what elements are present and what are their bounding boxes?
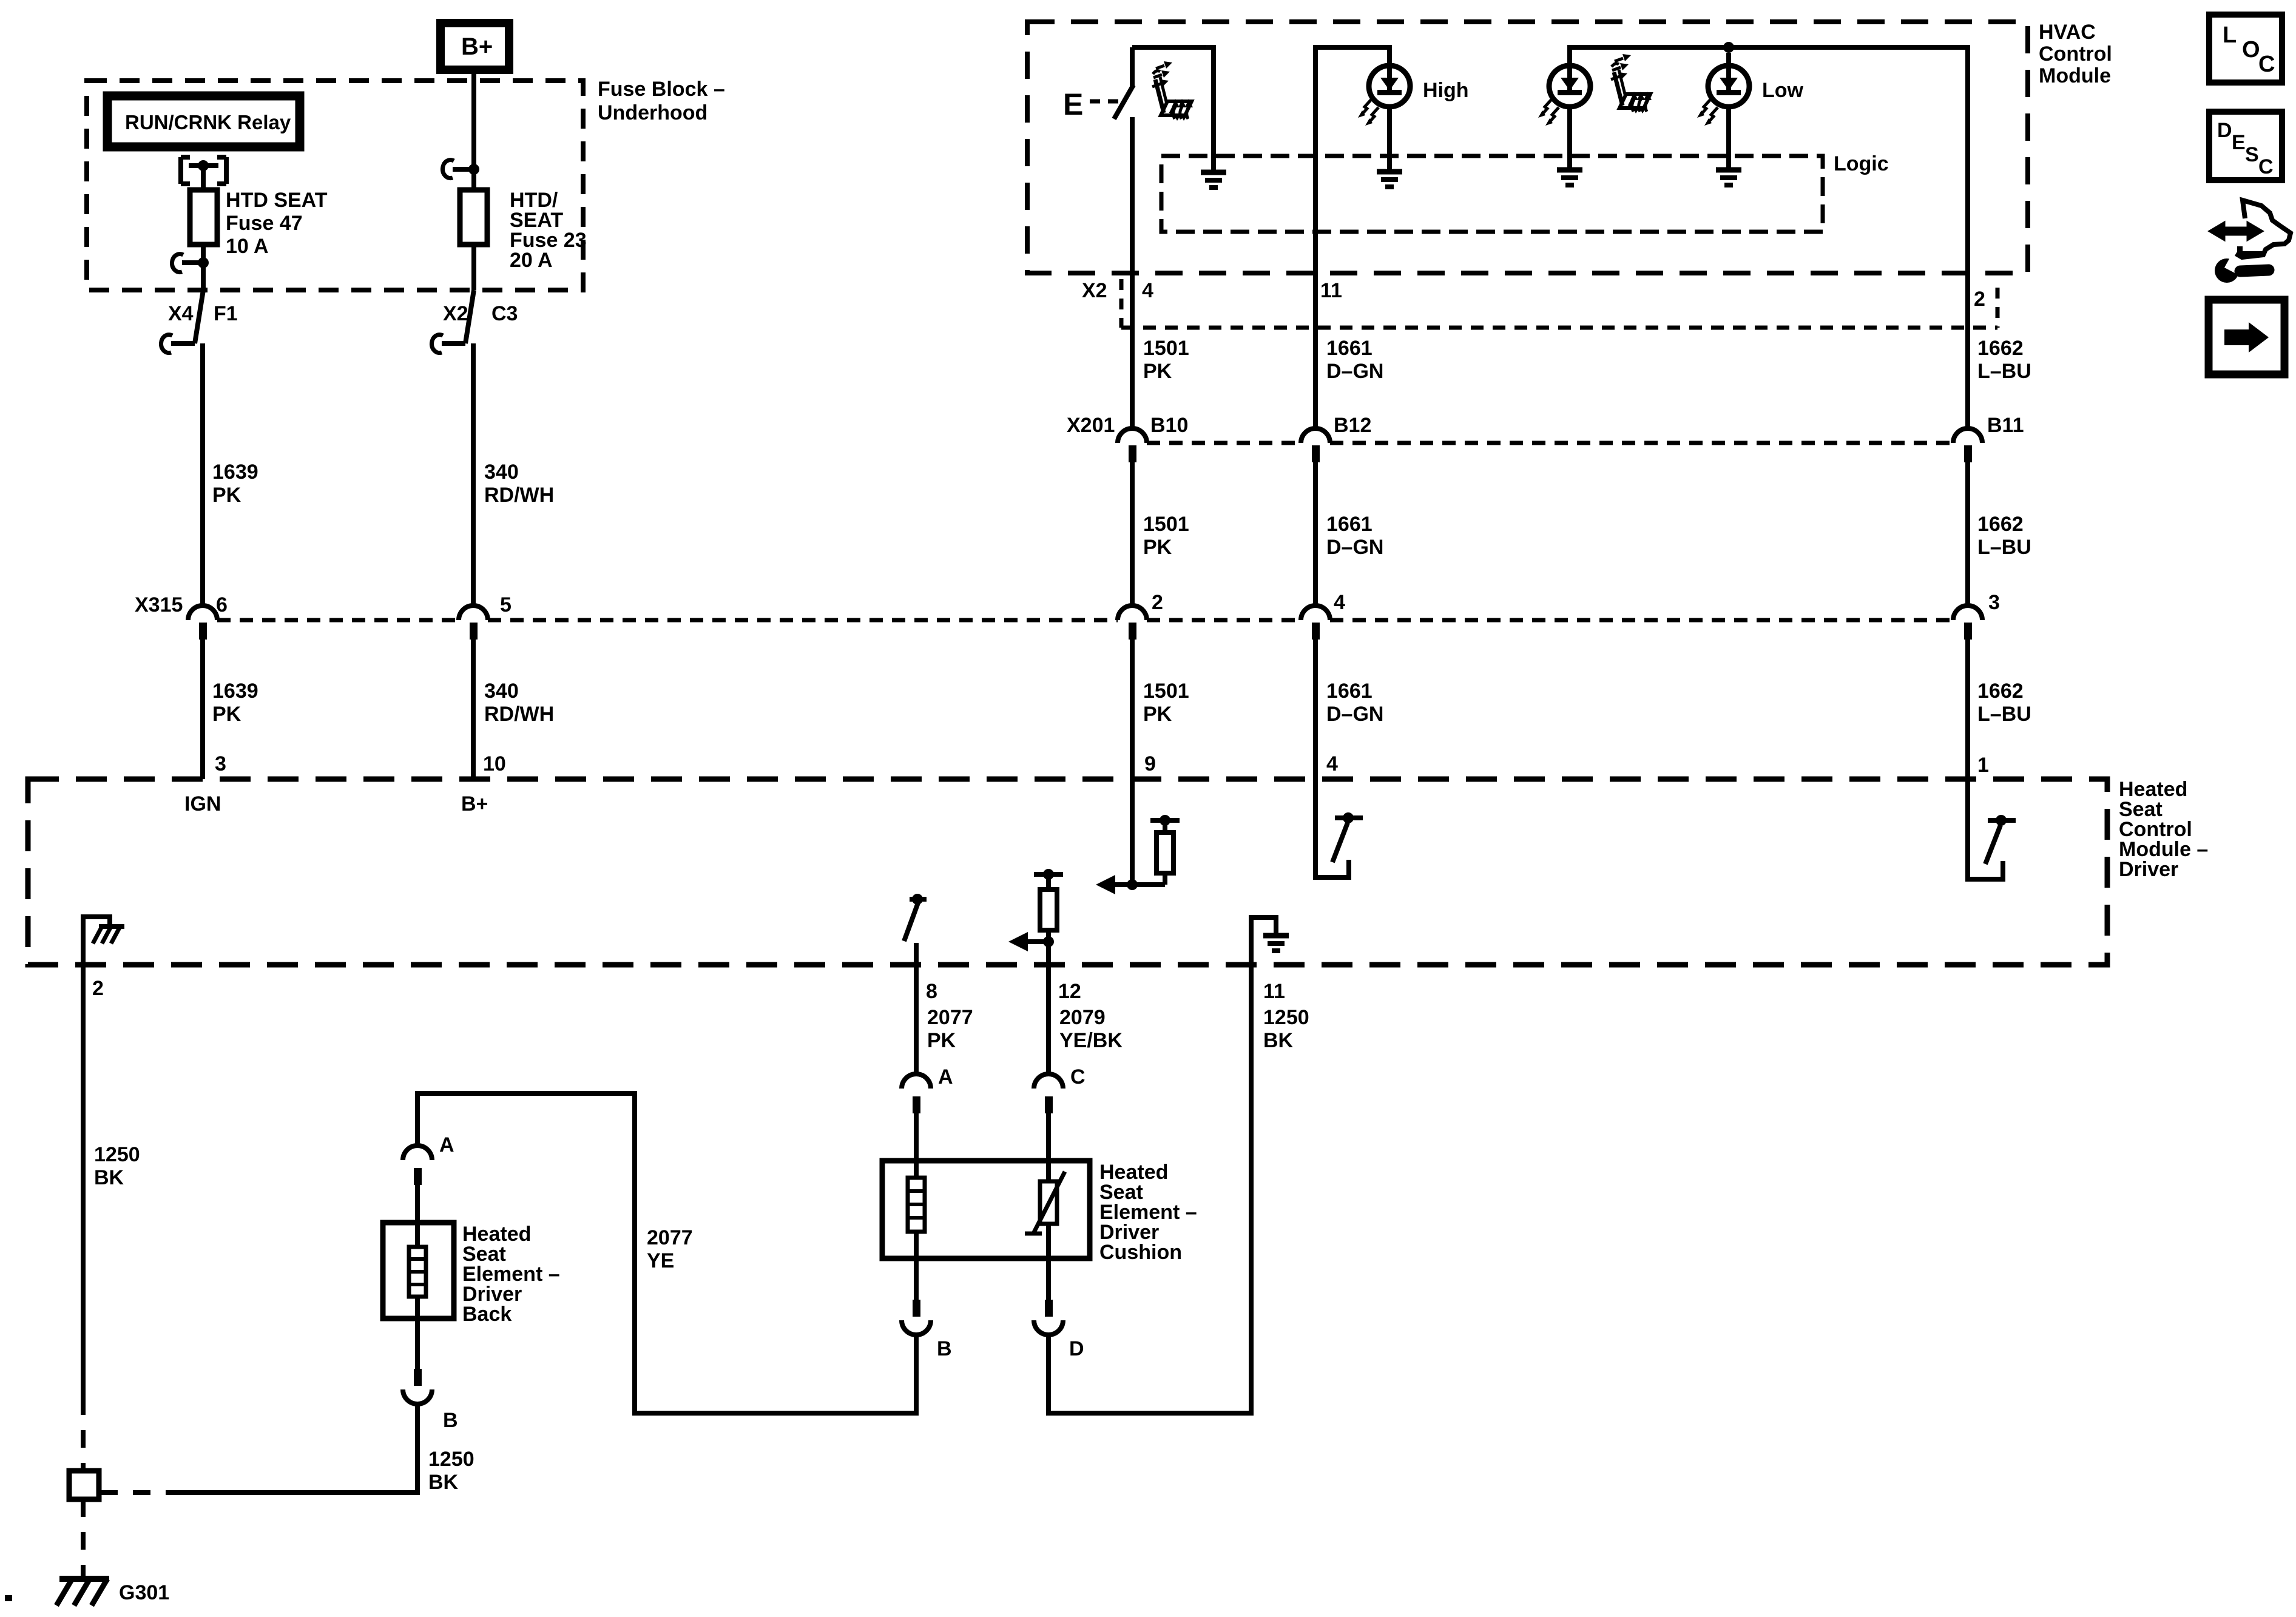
- svg-text:Low: Low: [1762, 79, 1804, 102]
- svg-text:Module: Module: [2039, 64, 2111, 87]
- RUN/CRNK relay box: [107, 96, 300, 147]
- svg-text:4: 4: [1326, 752, 1338, 775]
- wire A into back element: [415, 1185, 420, 1247]
- label 1639 PK lower: [212, 680, 258, 726]
- wire 1661 D-GN row A: [1313, 328, 1318, 430]
- svg-text:B10: B10: [1150, 414, 1188, 437]
- module switch pin 4: [1315, 779, 1363, 877]
- svg-text:C: C: [1070, 1065, 1086, 1089]
- module resistor pin 12: [1034, 869, 1063, 965]
- wire 2079 YE/BK pin 12: [1046, 965, 1051, 1074]
- connector A back: [403, 1133, 454, 1185]
- svg-text:D–GN: D–GN: [1326, 360, 1383, 383]
- svg-text:Driver: Driver: [2119, 858, 2178, 881]
- svg-text:PK: PK: [212, 484, 241, 507]
- svg-text:X4: X4: [168, 302, 194, 325]
- svg-text:1501: 1501: [1143, 513, 1189, 536]
- HVAC control module label: [2039, 21, 2112, 87]
- wire 1250 BK left dashed to splice: [81, 1397, 86, 1471]
- wire 1501 PK row A: [1130, 328, 1135, 430]
- module resistor pin 9: [1150, 815, 1180, 885]
- svg-text:1662: 1662: [1977, 513, 2024, 536]
- svg-text:L–BU: L–BU: [1977, 360, 2031, 383]
- wire top rail Low branch: [1570, 47, 1968, 273]
- svg-text:1250: 1250: [1263, 1006, 1309, 1029]
- ground G301: [56, 1579, 109, 1605]
- label 1661 D-GN row A: [1326, 337, 1383, 383]
- wire 1662 L-BU row C: [1965, 640, 1970, 779]
- contact below fuse 47: [172, 254, 209, 290]
- svg-text:9: 9: [1144, 752, 1156, 775]
- wire 1639 PK upper: [200, 343, 205, 607]
- svg-text:C: C: [2258, 155, 2274, 178]
- svg-text:PK: PK: [212, 703, 241, 726]
- heated seat icon 1: [1152, 61, 1193, 121]
- svg-text:B12: B12: [1334, 414, 1371, 437]
- label 340 RD/WH lower: [484, 680, 554, 726]
- svg-text:D–GN: D–GN: [1326, 536, 1383, 559]
- module arrow pin 12: [1008, 932, 1054, 951]
- cushion heater element: [908, 1178, 925, 1300]
- svg-text:1: 1: [1977, 754, 1989, 777]
- svg-text:Cushion: Cushion: [1099, 1241, 1182, 1264]
- svg-text:1661: 1661: [1326, 337, 1373, 360]
- svg-text:2077: 2077: [647, 1226, 693, 1249]
- wire splice to G301 dashed: [81, 1499, 86, 1578]
- switch E actuator: [1063, 87, 1123, 121]
- svg-text:2: 2: [1974, 288, 1985, 311]
- splice square: [69, 1471, 99, 1499]
- label 1501 PK row C: [1143, 680, 1189, 726]
- svg-text:D–GN: D–GN: [1326, 703, 1383, 726]
- svg-text:S: S: [2245, 143, 2259, 166]
- svg-text:11: 11: [1263, 980, 1285, 1003]
- wire 1662 L-BU row A: [1965, 273, 1970, 430]
- svg-text:1661: 1661: [1326, 513, 1373, 536]
- X315 terminal pin 4: [1301, 591, 1345, 640]
- svg-text:Logic: Logic: [1834, 152, 1889, 175]
- fuse 47 label: [226, 189, 328, 258]
- svg-text:E: E: [1063, 87, 1083, 121]
- relay contact: [181, 157, 226, 190]
- switch blade HVAC: [1114, 47, 1133, 119]
- svg-text:1250: 1250: [94, 1143, 140, 1166]
- connector B cushion: [902, 1300, 952, 1360]
- label 340 RD/WH upper: [484, 461, 554, 507]
- wire 1662 L-BU row B: [1965, 462, 1970, 607]
- svg-text:11: 11: [1320, 279, 1342, 302]
- page mark dot: [5, 1595, 12, 1601]
- svg-text:4: 4: [1334, 591, 1345, 614]
- wire 2077 PK pin 8: [914, 965, 919, 1074]
- label 2077 YE: [647, 1226, 693, 1272]
- heated seat element driver cushion box: [882, 1161, 1090, 1258]
- svg-text:O: O: [2242, 37, 2260, 62]
- B+ power terminal box: [441, 23, 509, 70]
- svg-text:1250: 1250: [428, 1448, 474, 1471]
- svg-text:X201: X201: [1067, 414, 1115, 437]
- svg-text:IGN: IGN: [184, 792, 221, 815]
- label 1250 BK pin 11: [1263, 1006, 1309, 1052]
- svg-text:L–BU: L–BU: [1977, 703, 2031, 726]
- svg-text:1501: 1501: [1143, 680, 1189, 703]
- svg-text:X2: X2: [443, 302, 468, 325]
- svg-text:HVAC: HVAC: [2039, 21, 2096, 44]
- wire 1639 PK lower: [200, 640, 205, 779]
- label 1662 L-BU row B: [1977, 513, 2031, 559]
- connector X4 pin F1: [161, 290, 237, 353]
- svg-text:B: B: [937, 1337, 952, 1360]
- svg-text:3: 3: [1988, 591, 2000, 614]
- svg-text:10: 10: [483, 752, 506, 775]
- Low indicator LED: [1697, 53, 1749, 126]
- connector B back: [403, 1369, 458, 1432]
- svg-text:C: C: [2258, 52, 2275, 77]
- switch branch wire and corner: [1130, 117, 1135, 328]
- svg-text:D: D: [2217, 119, 2232, 142]
- connector row X2 HVAC: [1082, 279, 1997, 328]
- heated seat icon 2: [1611, 54, 1652, 113]
- fuse 23 label: [510, 189, 587, 272]
- connector A cushion: [902, 1065, 953, 1113]
- svg-text:Underhood: Underhood: [598, 101, 707, 124]
- connector D cushion: [1034, 1300, 1084, 1360]
- svg-text:G301: G301: [119, 1581, 169, 1604]
- svg-text:8: 8: [926, 980, 937, 1003]
- svg-text:Control: Control: [2039, 42, 2112, 66]
- svg-text:PK: PK: [1143, 360, 1172, 383]
- svg-text:L–BU: L–BU: [1977, 536, 2031, 559]
- wire 340 RD/WH lower: [471, 640, 476, 779]
- svg-text:RD/WH: RD/WH: [484, 484, 554, 507]
- wire LED left to ground: [1567, 107, 1572, 168]
- legend forward arrow box: [2209, 300, 2284, 374]
- svg-text:Fuse 47: Fuse 47: [226, 212, 303, 235]
- wire 1250 BK pin 11: [1048, 965, 1251, 1413]
- svg-text:L: L: [2223, 22, 2237, 48]
- module arrow pin 9: [1096, 779, 1165, 894]
- indicator LED left of pair: [1538, 66, 1590, 126]
- svg-text:2: 2: [1152, 591, 1163, 614]
- X315 terminal pin 6: [188, 593, 228, 640]
- svg-text:B11: B11: [1987, 414, 2024, 437]
- svg-text:2077: 2077: [927, 1006, 973, 1029]
- svg-text:1661: 1661: [1326, 680, 1373, 703]
- dashed wire to splice square: [99, 1490, 183, 1495]
- junction dot Low rail: [1723, 42, 1734, 53]
- svg-text:3: 3: [215, 752, 226, 775]
- svg-text:1662: 1662: [1977, 337, 2024, 360]
- wire C into cushion element: [1046, 1113, 1051, 1181]
- wire 1661 D-GN row C: [1313, 640, 1318, 779]
- wire Low LED to ground: [1726, 107, 1731, 168]
- svg-text:D: D: [1069, 1337, 1084, 1360]
- cushion thermistor: [1025, 1172, 1065, 1300]
- ground for Low LED: [1716, 170, 1741, 185]
- svg-text:4: 4: [1142, 279, 1153, 302]
- fuse block label: [598, 78, 725, 124]
- label 2079 YE/BK: [1059, 1006, 1123, 1052]
- wire B+ feed to fuse 23: [471, 70, 476, 169]
- wire 340 RD/WH upper: [471, 343, 476, 607]
- fuse 23: [460, 161, 487, 290]
- svg-text:Back: Back: [462, 1303, 512, 1326]
- label 1662 L-BU row C: [1977, 680, 2031, 726]
- svg-text:BK: BK: [94, 1166, 124, 1189]
- svg-text:PK: PK: [1143, 536, 1172, 559]
- svg-text:E: E: [2232, 131, 2246, 154]
- svg-text:X315: X315: [135, 593, 183, 616]
- connector C cushion: [1034, 1065, 1086, 1113]
- legend service tool icon: [2210, 200, 2291, 283]
- label 1250 BK back: [428, 1448, 474, 1494]
- svg-text:B+: B+: [461, 33, 493, 60]
- connector row X201: [1067, 414, 1953, 443]
- svg-text:B+: B+: [461, 792, 488, 815]
- svg-text:1501: 1501: [1143, 337, 1189, 360]
- wire 1250 BK left solid: [81, 965, 86, 1397]
- label 1662 L-BU row A: [1977, 337, 2031, 383]
- svg-text:10 A: 10 A: [226, 235, 269, 258]
- back heater element: [409, 1247, 426, 1369]
- Logic dashed box: [1161, 156, 1823, 232]
- module switch pin 1: [1968, 779, 2016, 879]
- label 1661 D-GN row C: [1326, 680, 1383, 726]
- X315 terminal pin 5: [459, 593, 512, 640]
- svg-text:1639: 1639: [212, 680, 258, 703]
- svg-text:RUN/CRNK Relay: RUN/CRNK Relay: [125, 111, 291, 133]
- wire A into cushion element: [914, 1113, 919, 1178]
- contact above fuse 23: [442, 160, 479, 178]
- heated seat element driver cushion label: [1099, 1161, 1197, 1264]
- High indicator LED: [1358, 66, 1410, 126]
- svg-text:PK: PK: [1143, 703, 1172, 726]
- svg-text:RD/WH: RD/WH: [484, 703, 554, 726]
- svg-text:20 A: 20 A: [510, 249, 553, 272]
- svg-text:YE/BK: YE/BK: [1059, 1029, 1123, 1052]
- legend DESC box: [2209, 112, 2282, 180]
- svg-text:5: 5: [500, 593, 512, 616]
- switch branch top wire to ground: [1132, 47, 1214, 170]
- wire 1501 PK row B: [1130, 462, 1135, 607]
- module internal ground left: [83, 917, 124, 965]
- svg-text:1639: 1639: [212, 461, 258, 484]
- label 1639 PK upper: [212, 461, 258, 507]
- legend LOC box: [2209, 15, 2282, 83]
- svg-text:F1: F1: [214, 302, 238, 325]
- wire 1501 PK row C: [1130, 640, 1135, 779]
- ground for LED left: [1557, 170, 1582, 185]
- connector row X315: [135, 593, 1953, 620]
- fuse 47: [190, 190, 217, 263]
- svg-text:6: 6: [216, 593, 228, 616]
- wire 1661 D-GN row B: [1313, 462, 1318, 607]
- svg-text:BK: BK: [1263, 1029, 1294, 1052]
- svg-text:A: A: [938, 1065, 953, 1089]
- svg-text:HTD SEAT: HTD SEAT: [226, 189, 328, 212]
- svg-text:340: 340: [484, 680, 519, 703]
- label 2077 PK: [927, 1006, 973, 1052]
- module ground pin 11: [1251, 917, 1289, 965]
- X315 terminal pin 2: [1118, 591, 1163, 640]
- svg-text:B: B: [443, 1409, 458, 1432]
- svg-text:1662: 1662: [1977, 680, 2024, 703]
- wire High LED to ground: [1387, 107, 1392, 170]
- wire pin 11 branch up to High LED: [1315, 47, 1389, 328]
- wire back B to splice: [183, 1403, 417, 1493]
- label 1501 PK row A: [1143, 337, 1189, 383]
- label 1661 D-GN row B: [1326, 513, 1383, 559]
- X315 terminal pin 3: [1953, 591, 2000, 640]
- svg-text:2079: 2079: [1059, 1006, 1106, 1029]
- X201 terminal B12: [1301, 414, 1371, 462]
- svg-text:12: 12: [1058, 980, 1081, 1003]
- X201 terminal B11: [1953, 414, 2024, 462]
- wire 2077 YE from cushion B to back A: [417, 1093, 916, 1413]
- svg-text:C3: C3: [491, 302, 518, 325]
- svg-text:PK: PK: [927, 1029, 956, 1052]
- module switch pin 8: [904, 894, 927, 965]
- svg-text:340: 340: [484, 461, 519, 484]
- svg-text:High: High: [1423, 79, 1469, 102]
- connector X2 pin C3: [431, 290, 518, 353]
- HVAC control module dashed box: [1027, 22, 2028, 273]
- label 1250 BK left: [94, 1143, 140, 1189]
- svg-text:A: A: [439, 1133, 454, 1156]
- svg-text:YE: YE: [647, 1249, 674, 1272]
- svg-text:Fuse Block –: Fuse Block –: [598, 78, 725, 101]
- fuse block underhood dashed box: [87, 81, 583, 290]
- heated seat element driver back label: [462, 1223, 560, 1326]
- ground for switch branch: [1201, 172, 1226, 187]
- heated seat control module label: [2119, 778, 2208, 881]
- svg-text:BK: BK: [428, 1471, 459, 1494]
- svg-text:2: 2: [92, 977, 104, 1000]
- X201 terminal B10: [1118, 414, 1188, 462]
- heated seat element driver back box: [383, 1223, 454, 1318]
- ground for High LED: [1377, 172, 1402, 187]
- heated seat control module dashed box: [28, 779, 2107, 965]
- label 1501 PK row B: [1143, 513, 1189, 559]
- svg-text:X2: X2: [1082, 279, 1107, 302]
